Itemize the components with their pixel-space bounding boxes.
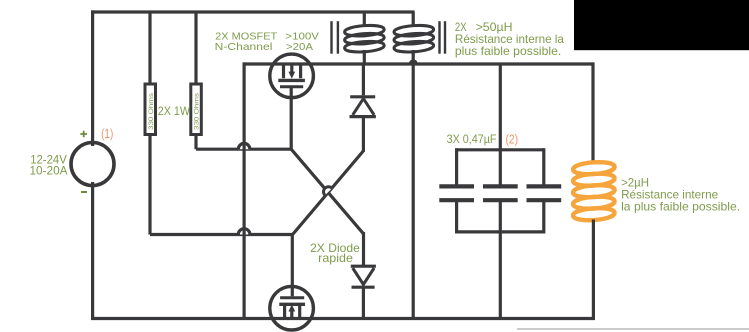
wire cap bottom bus bbox=[457, 230, 544, 233]
wire Q1 gate lead down bbox=[290, 87, 293, 149]
svg-text:>100V: >100V bbox=[285, 32, 319, 43]
transistor Q2 channel bar bbox=[279, 303, 305, 306]
resistor R2 top lead bbox=[194, 12, 197, 84]
resistor R1 bottom lead bbox=[148, 135, 151, 235]
diode D2 anode bar bbox=[351, 265, 376, 268]
core bar right 1 bbox=[438, 21, 440, 54]
wire source drop from drain bus to ground bbox=[243, 62, 246, 318]
label L1 L2 ratings bbox=[455, 20, 564, 58]
transistor Q2 right leg bbox=[298, 304, 301, 318]
source V1 circle bbox=[71, 143, 114, 186]
transistor Q1 channel bar bbox=[278, 79, 305, 82]
svg-text:10-20A: 10-20A bbox=[30, 164, 68, 178]
transistor Q2 left leg bbox=[283, 304, 286, 318]
transistor Q1 right leg bbox=[299, 64, 302, 78]
black masking rectangle top right bbox=[574, 0, 749, 50]
resistor R1 top lead bbox=[148, 12, 151, 84]
diode D1 top lead bbox=[362, 64, 365, 95]
transistor Q1 arrow down bbox=[290, 64, 293, 72]
capacitor C3 plates bbox=[527, 186, 562, 200]
transistor Q1 gate bar bbox=[280, 85, 303, 88]
svg-text:plus faible possible.: plus faible possible. bbox=[455, 44, 561, 58]
diode D1 bottom lead bbox=[362, 117, 365, 152]
svg-text:N-Channel: N-Channel bbox=[215, 42, 273, 53]
wire cap top right stub bbox=[542, 148, 545, 186]
label 2X MOSFET ratings bbox=[215, 32, 320, 54]
diode D1 triangle bbox=[353, 99, 374, 115]
wire drain bus Q1 bbox=[243, 62, 594, 65]
diode D2 cathode bar bbox=[352, 286, 375, 289]
svg-text:330 Ohms: 330 Ohms bbox=[194, 93, 201, 130]
core bar right 2 bbox=[444, 21, 446, 54]
wire L3 bottom lead bbox=[592, 220, 595, 319]
diode D1 anode bar bbox=[350, 115, 376, 118]
wire cap bank to bottom rail bbox=[499, 200, 502, 318]
wire cap top left stub bbox=[455, 148, 458, 186]
svg-text:la plus faible possible.: la plus faible possible. bbox=[621, 199, 740, 213]
inductor L1 top lead bbox=[363, 12, 366, 27]
resistor R1 body bbox=[145, 84, 156, 135]
wire hop over at 244,149 bbox=[238, 143, 250, 149]
diode D2 triangle bbox=[353, 268, 374, 285]
wire battery top lead bbox=[91, 10, 94, 146]
wire right branch drop bbox=[591, 62, 594, 162]
svg-text:2X 1W: 2X 1W bbox=[158, 104, 191, 118]
wire bottom rail bbox=[91, 317, 595, 320]
capacitor C2 plates bbox=[483, 186, 518, 200]
svg-text:rapide: rapide bbox=[318, 251, 353, 265]
node plus sign bbox=[80, 131, 87, 138]
inductor L2 bottom lead to bottom rail bbox=[412, 50, 415, 319]
gray line bottom right bbox=[517, 328, 749, 330]
wire R2 to gate1 horizontal bbox=[196, 148, 291, 151]
inductor L2 turns bbox=[394, 24, 434, 53]
core bar left 1 bbox=[330, 21, 332, 54]
transistor Q2 arrow up bbox=[290, 311, 293, 319]
svg-text:(2): (2) bbox=[506, 133, 519, 147]
resistor R2 body bbox=[191, 84, 202, 135]
wire cap bottom left stub bbox=[455, 200, 458, 233]
label diodes bbox=[310, 241, 360, 265]
svg-text:2X MOSFET: 2X MOSFET bbox=[215, 32, 277, 43]
wire battery bottom lead bbox=[91, 182, 94, 319]
core bar left 2 bbox=[337, 21, 339, 54]
transistor Q2 gate bar bbox=[280, 296, 304, 299]
wire diagonal gate1 to D2 bbox=[291, 149, 363, 234]
label L3 ratings bbox=[621, 175, 740, 213]
inductor L1 turns bbox=[344, 24, 384, 53]
transistor Q1 circle bbox=[270, 54, 314, 98]
capacitor C1 plates bbox=[439, 186, 474, 200]
diode D2 bottom lead bbox=[362, 287, 365, 318]
wire gate2 lead down bbox=[291, 235, 294, 297]
resistor R2 bottom lead bbox=[194, 135, 197, 150]
transistor Q2 circle bbox=[270, 286, 314, 330]
wire R1 to gate2 horizontal bbox=[150, 233, 293, 236]
svg-text:(1): (1) bbox=[101, 127, 113, 141]
wire hop over at 244,234 bbox=[238, 229, 250, 235]
wire cap top bus bbox=[457, 148, 544, 151]
wire top rail V+ bbox=[91, 10, 414, 13]
wire capacitor bank drop bbox=[499, 64, 502, 186]
inductor L3 turns (output coil) bbox=[573, 161, 615, 222]
svg-text:3X 0,47µF: 3X 0,47µF bbox=[447, 132, 497, 146]
node minus sign bbox=[81, 191, 87, 193]
diode D1 cathode bar bbox=[350, 95, 375, 98]
junction hop dome at L2 lead over drain bus bbox=[409, 59, 418, 64]
label battery voltage bbox=[30, 153, 68, 178]
svg-text:330 Ohms: 330 Ohms bbox=[148, 93, 155, 130]
wire diagonal D1 to gate2 bbox=[293, 151, 364, 235]
svg-text:>20A: >20A bbox=[286, 42, 313, 53]
diode D2 top lead bbox=[362, 232, 365, 266]
wire cap bottom right stub bbox=[542, 200, 545, 233]
inductor L2 top lead bbox=[412, 12, 415, 27]
transistor Q1 left leg bbox=[282, 64, 285, 78]
inductor L1 bottom lead bbox=[363, 50, 366, 64]
wire hop at X crossing bbox=[324, 187, 333, 196]
